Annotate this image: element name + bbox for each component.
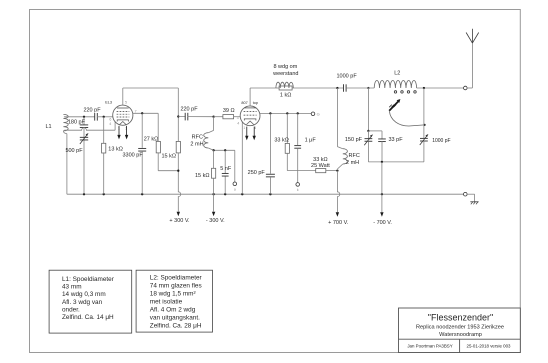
svg-text:33 pF: 33 pF [389, 137, 404, 143]
svg-text:33 kΩ: 33 kΩ [313, 157, 328, 163]
svg-text:807: 807 [241, 101, 247, 105]
svg-text:onder.: onder. [62, 307, 80, 314]
svg-text:Zelfind. Ca. 28 μH: Zelfind. Ca. 28 μH [150, 322, 202, 329]
svg-text:18 wdg 1,5 mm²: 18 wdg 1,5 mm² [150, 290, 196, 297]
svg-text:- 700 V.: - 700 V. [373, 220, 392, 226]
svg-text:L1: Spoeldiameter: L1: Spoeldiameter [62, 276, 115, 283]
svg-text:74 mm glazen fles: 74 mm glazen fles [150, 282, 202, 289]
svg-text:14 wdg 0,3 mm: 14 wdg 0,3 mm [62, 291, 106, 298]
svg-text:Afl. 4 Om 2 wdg: Afl. 4 Om 2 wdg [150, 306, 196, 313]
svg-text:5 nF: 5 nF [220, 166, 232, 172]
svg-text:2 mH: 2 mH [190, 141, 203, 147]
svg-text:4: 4 [109, 122, 111, 126]
svg-text:k: k [297, 188, 299, 192]
svg-text:L1: L1 [45, 124, 51, 130]
svg-text:8 wdg om: 8 wdg om [273, 64, 297, 70]
svg-text:Watersnoodramp: Watersnoodramp [439, 332, 482, 338]
svg-text:25-01-2018 versie 003: 25-01-2018 versie 003 [467, 343, 511, 348]
svg-text:1 kΩ: 1 kΩ [280, 92, 291, 98]
svg-text:Replica noodzender 1953 Zierik: Replica noodzender 1953 Zierikzee [416, 325, 504, 331]
svg-text:2 mH: 2 mH [346, 160, 359, 166]
svg-text:13 kΩ: 13 kΩ [108, 146, 123, 152]
svg-text:Afl. 3 wdg van: Afl. 3 wdg van [62, 299, 103, 306]
svg-text:39 Ω: 39 Ω [223, 108, 235, 114]
svg-text:43 mm: 43 mm [62, 284, 82, 291]
svg-text:+ 300 V.: + 300 V. [169, 218, 190, 224]
svg-text:a: a [234, 188, 236, 192]
svg-text:220 pF: 220 pF [83, 108, 101, 114]
svg-text:27 kΩ: 27 kΩ [144, 137, 159, 143]
svg-text:15 kΩ: 15 kΩ [161, 154, 176, 160]
svg-text:weerstand: weerstand [272, 71, 298, 77]
svg-text:6: 6 [109, 117, 111, 121]
svg-text:Zelfind. Ca. 14 μH: Zelfind. Ca. 14 μH [62, 314, 114, 321]
svg-text:1000 pF: 1000 pF [432, 138, 450, 144]
svg-text:RFC: RFC [349, 153, 360, 159]
svg-text:4: 4 [237, 122, 239, 126]
svg-text:150 pF: 150 pF [345, 137, 363, 143]
svg-text:van uitgangskant.: van uitgangskant. [150, 314, 200, 321]
svg-text:3: 3 [237, 116, 239, 120]
svg-text:"Flessenzender": "Flessenzender" [428, 313, 493, 323]
svg-text:G: G [317, 112, 320, 117]
svg-text:220 pF: 220 pF [180, 107, 198, 113]
svg-text:RFC: RFC [192, 134, 203, 140]
svg-text:180 pF: 180 pF [68, 120, 86, 126]
svg-text:33 kΩ: 33 kΩ [274, 138, 289, 144]
svg-text:500 pF: 500 pF [65, 148, 83, 154]
svg-text:+ 700 V.: + 700 V. [328, 220, 349, 226]
svg-text:met isolatie: met isolatie [150, 298, 183, 305]
svg-text:250 pF: 250 pF [248, 170, 266, 176]
svg-text:L2: Spoeldiameter: L2: Spoeldiameter [150, 274, 203, 281]
svg-text:3300 pF: 3300 pF [123, 153, 144, 159]
svg-text:L2: L2 [394, 70, 400, 76]
svg-text:- 300 V.: - 300 V. [206, 218, 225, 224]
svg-text:5: 5 [125, 101, 127, 105]
svg-text:1000 pF: 1000 pF [337, 73, 358, 79]
svg-text:EL3: EL3 [105, 101, 112, 105]
svg-text:Jan Poortman PA3BSY: Jan Poortman PA3BSY [407, 343, 452, 348]
svg-text:1 μF: 1 μF [305, 138, 317, 144]
svg-text:top: top [253, 101, 258, 105]
svg-text:15 kΩ: 15 kΩ [195, 173, 210, 179]
svg-text:25 Watt: 25 Watt [311, 163, 330, 169]
svg-text:1: 1 [243, 126, 245, 130]
